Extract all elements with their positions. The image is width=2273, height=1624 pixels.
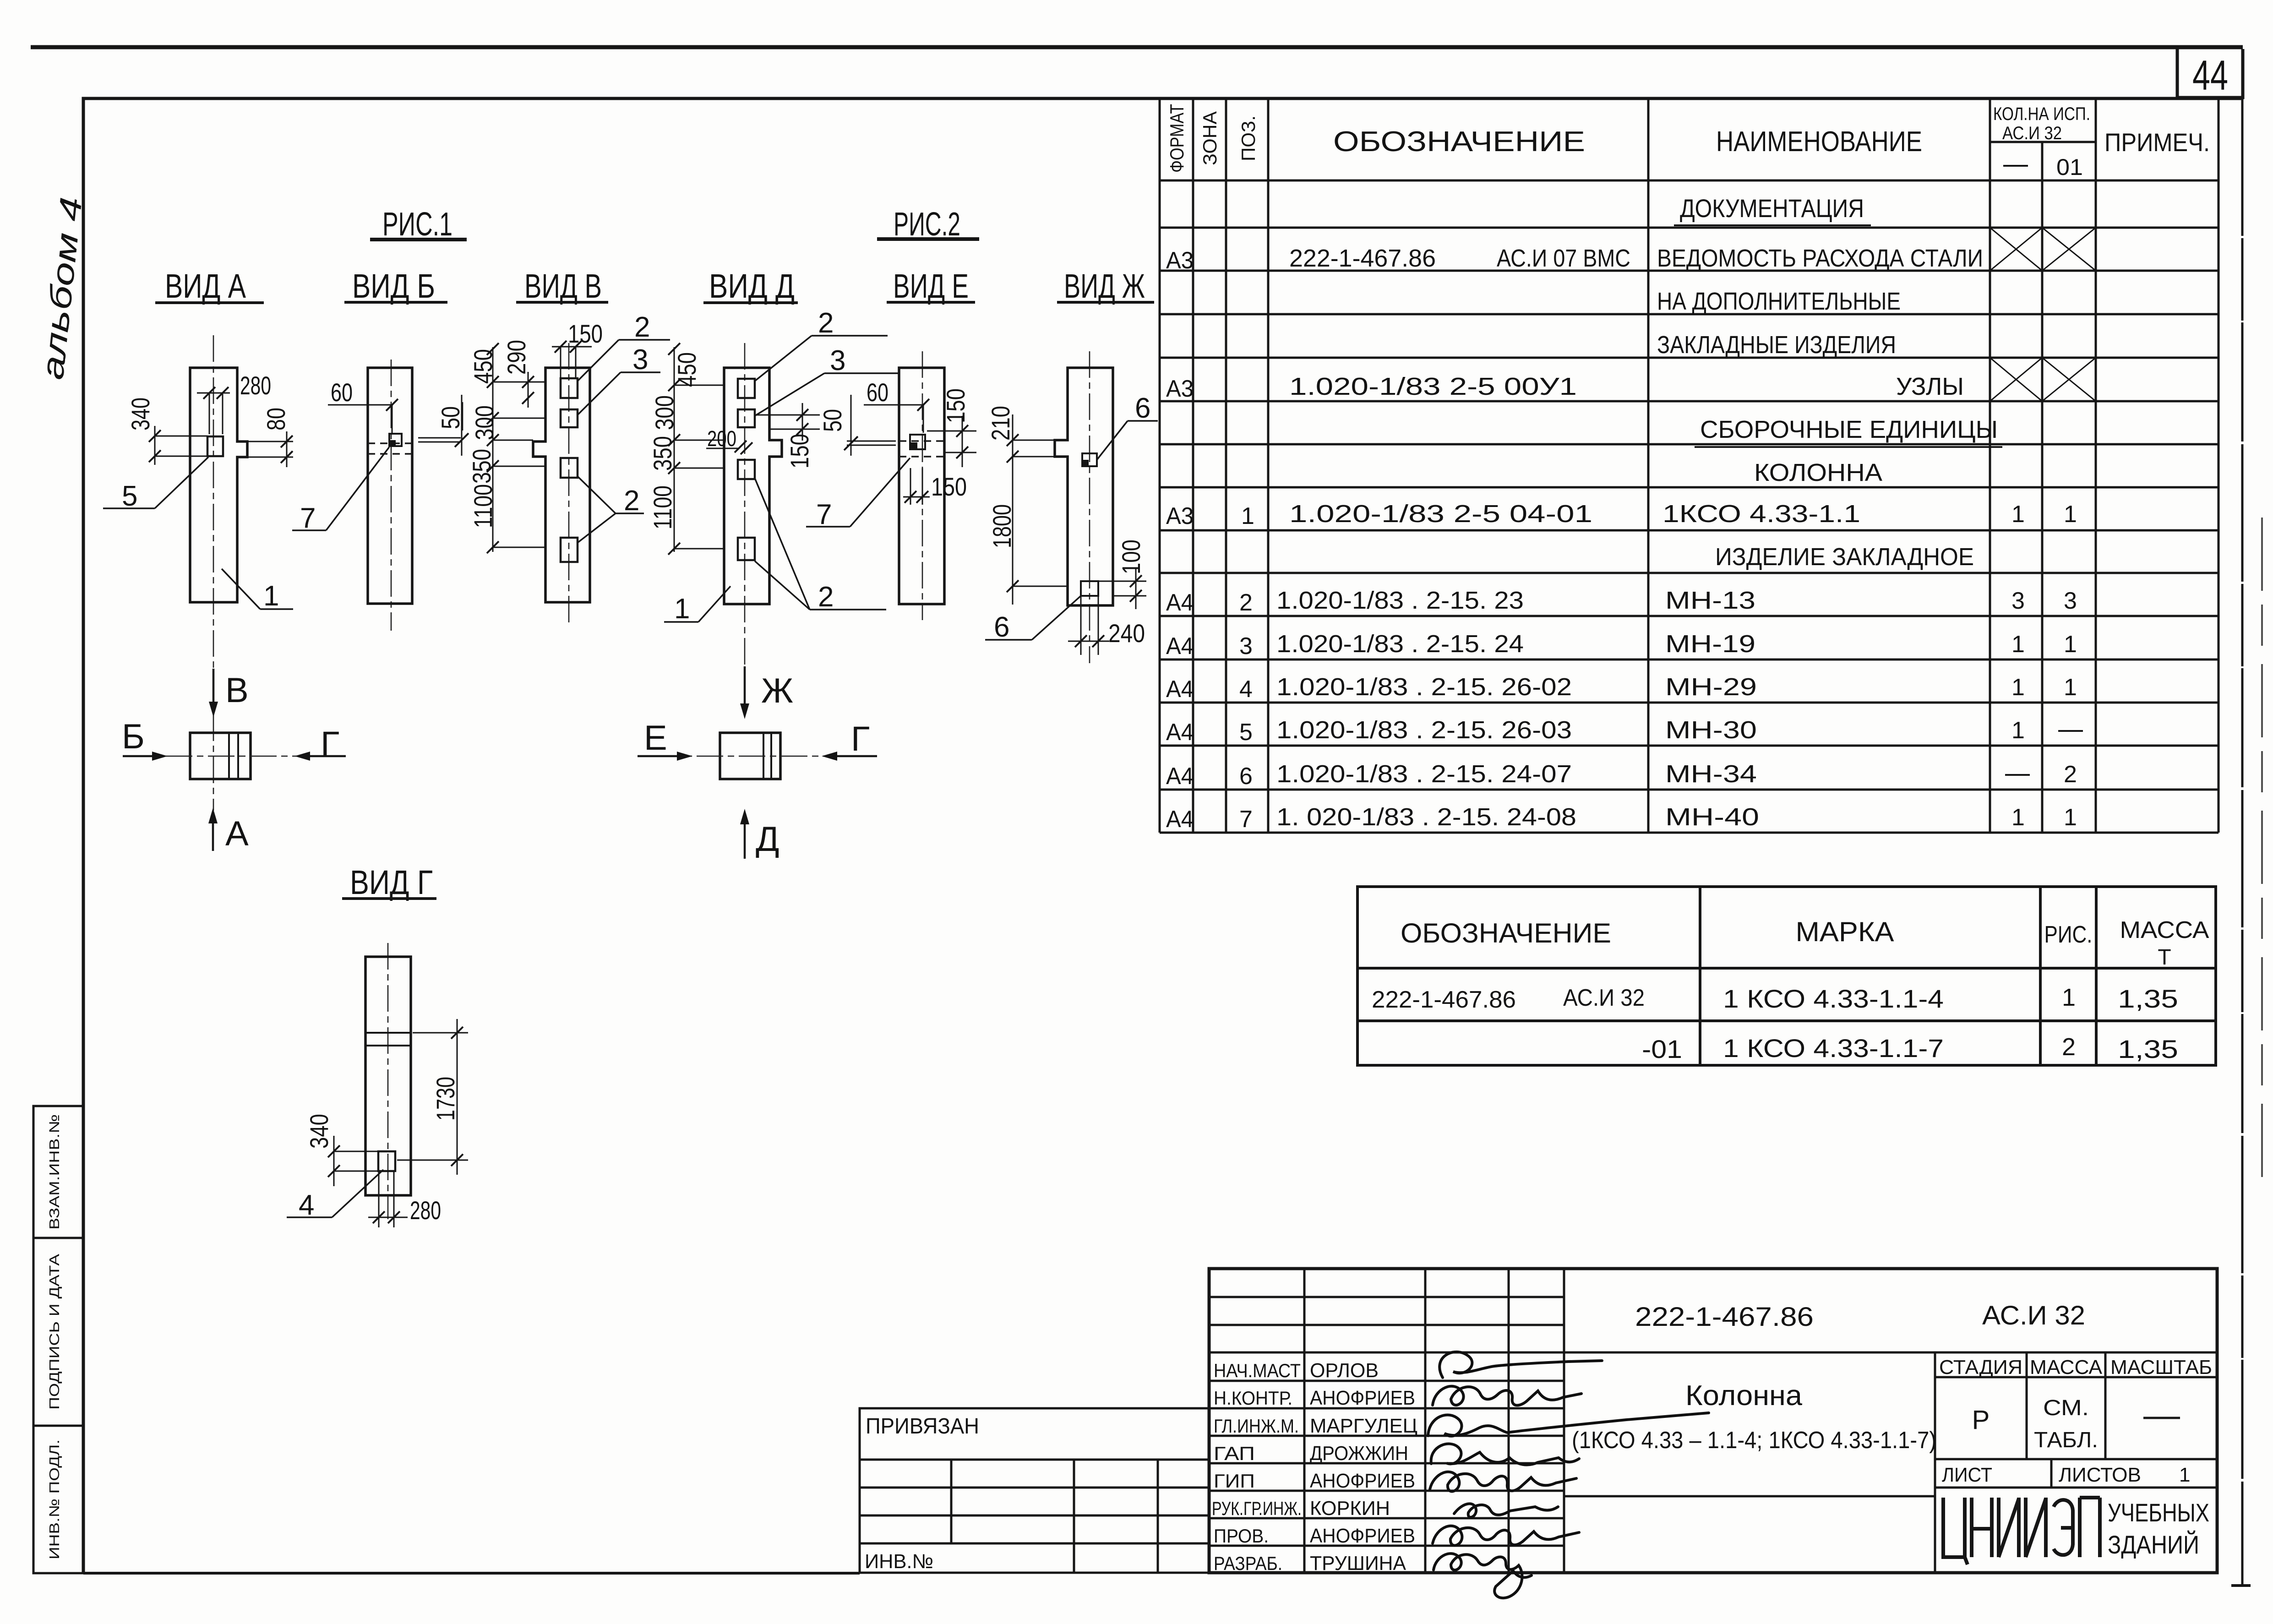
svg-text:5: 5 xyxy=(122,480,137,512)
view E centerline xyxy=(922,351,923,620)
svg-text:НАЧ.МАСТ: НАЧ.МАСТ xyxy=(1214,1360,1301,1381)
view V column outline xyxy=(533,368,590,602)
svg-text:А3: А3 xyxy=(1166,247,1194,274)
svg-text:3: 3 xyxy=(830,345,845,376)
svg-text:АС.И 32: АС.И 32 xyxy=(1563,985,1645,1011)
svg-text:4: 4 xyxy=(1239,676,1253,703)
dimension 150 (view V top) xyxy=(552,319,603,378)
section arrow E (left of plan D) xyxy=(638,719,692,761)
leader item 2 (view V middle pair) xyxy=(578,476,644,543)
logo CNIIEP letters xyxy=(1943,1498,2100,1564)
section arrow B (left of plan A) xyxy=(122,717,168,761)
view D plate 2c xyxy=(738,538,755,560)
section arrow D (below plan D) xyxy=(740,809,779,859)
signature Orlov xyxy=(1439,1352,1602,1378)
svg-text:ГИП: ГИП xyxy=(1214,1470,1255,1492)
svg-text:1: 1 xyxy=(2064,501,2077,528)
svg-text:Г: Г xyxy=(321,725,339,763)
svg-text:ПРИМЕЧ.: ПРИМЕЧ. xyxy=(2104,128,2210,157)
svg-text:ФОРМАТ: ФОРМАТ xyxy=(1166,104,1188,173)
signature Anofriev prov xyxy=(1433,1526,1579,1546)
view G centerline xyxy=(387,943,389,1219)
svg-text:450: 450 xyxy=(672,352,701,387)
svg-text:МН-30: МН-30 xyxy=(1665,716,1757,744)
svg-text:1: 1 xyxy=(2064,804,2077,831)
svg-text:222-1-467.86: 222-1-467.86 xyxy=(1635,1302,1814,1332)
svg-text:1100: 1100 xyxy=(648,485,677,529)
svg-text:1: 1 xyxy=(2011,631,2025,658)
svg-text:ЗДАНИЙ: ЗДАНИЙ xyxy=(2108,1530,2199,1559)
signature Drozhzhin xyxy=(1431,1444,1579,1465)
svg-text:Б: Б xyxy=(122,717,145,756)
dimension 50 (between D and E) xyxy=(818,395,896,456)
view Zh lower plate item 6 xyxy=(1081,581,1098,596)
svg-text:3: 3 xyxy=(632,344,648,376)
mark table grid xyxy=(1357,887,2216,1065)
view D left dimension chain xyxy=(648,343,724,555)
dimension 150 (view E right vertical) xyxy=(927,388,976,467)
svg-text:6: 6 xyxy=(1135,392,1150,424)
svg-text:4: 4 xyxy=(299,1189,314,1221)
title block horizontal lines xyxy=(1209,1297,2217,1546)
spec header dash xyxy=(2003,165,2028,167)
svg-text:А3: А3 xyxy=(1166,376,1194,402)
svg-text:222-1-467.86: 222-1-467.86 xyxy=(1289,245,1436,272)
left margin stamp box 2 xyxy=(33,1238,83,1426)
svg-text:УЧЕБНЫХ: УЧЕБНЫХ xyxy=(2108,1498,2209,1527)
svg-text:Г: Г xyxy=(851,719,870,758)
svg-text:3: 3 xyxy=(2011,588,2025,614)
svg-text:ВЗАМ.ИНВ.№: ВЗАМ.ИНВ.№ xyxy=(46,1114,62,1230)
svg-text:А4: А4 xyxy=(1166,676,1194,703)
frame right edge foot tick xyxy=(2231,1584,2251,1587)
view V plate 3 xyxy=(561,409,578,427)
svg-text:ГЛ.ИНЖ.М.: ГЛ.ИНЖ.М. xyxy=(1214,1415,1299,1437)
svg-text:АНОФРИЕВ: АНОФРИЕВ xyxy=(1310,1525,1415,1547)
svg-text:А4: А4 xyxy=(1166,589,1194,616)
left margin stamp box 1 xyxy=(33,1106,83,1238)
svg-text:ТРУШИНА: ТРУШИНА xyxy=(1310,1552,1406,1575)
svg-text:Т: Т xyxy=(2158,945,2171,970)
dimension 1800 (view Zh) xyxy=(987,457,1068,605)
svg-text:210: 210 xyxy=(986,406,1015,441)
svg-text:ВИД Ж: ВИД Ж xyxy=(1064,267,1145,305)
left margin stamp box 3 xyxy=(33,1426,83,1573)
svg-text:222-1-467.86: 222-1-467.86 xyxy=(1372,986,1516,1013)
dimension 340 (view A) xyxy=(126,398,207,465)
svg-text:50: 50 xyxy=(436,406,465,429)
dimension 60 (view B) xyxy=(328,378,398,433)
dimension 150 (view E lower) xyxy=(903,468,967,505)
svg-text:350: 350 xyxy=(467,449,496,484)
svg-text:1.020-1/83 . 2-15. 23: 1.020-1/83 . 2-15. 23 xyxy=(1276,587,1524,614)
view V plate 2a xyxy=(561,378,578,398)
svg-text:150: 150 xyxy=(941,388,970,423)
svg-text:60: 60 xyxy=(867,378,888,407)
svg-text:340: 340 xyxy=(305,1114,333,1149)
svg-text:АНОФРИЕВ: АНОФРИЕВ xyxy=(1310,1470,1415,1492)
svg-text:240: 240 xyxy=(1108,619,1145,648)
title block vertical lines xyxy=(1304,1269,2105,1573)
svg-text:6: 6 xyxy=(1239,763,1253,790)
svg-text:ЛИСТ: ЛИСТ xyxy=(1942,1464,1992,1486)
svg-text:ДОКУМЕНТАЦИЯ: ДОКУМЕНТАЦИЯ xyxy=(1680,194,1864,223)
signature Korkin xyxy=(1454,1504,1558,1517)
svg-text:1: 1 xyxy=(1241,503,1254,529)
svg-text:КОЛОННА: КОЛОННА xyxy=(1754,459,1882,486)
svg-text:РУК.ГР.ИНЖ.: РУК.ГР.ИНЖ. xyxy=(1212,1498,1302,1519)
section arrow V (below view A) xyxy=(209,669,249,717)
svg-text:1: 1 xyxy=(263,580,279,612)
view A plan inner lines xyxy=(228,733,230,779)
svg-text:2: 2 xyxy=(818,307,834,339)
title block outer frame xyxy=(1209,1269,2217,1573)
svg-text:А3: А3 xyxy=(1166,503,1194,529)
view D plan square xyxy=(720,733,780,779)
svg-text:МН-29: МН-29 xyxy=(1665,673,1757,701)
section arrow Zh (below view D) xyxy=(740,666,793,719)
view A plan horizontal centerline xyxy=(124,756,346,757)
view E hidden lines xyxy=(899,440,944,441)
dimension 50 (between B and V) xyxy=(418,395,469,456)
svg-text:1.020-1/83 2-5 04-01: 1.020-1/83 2-5 04-01 xyxy=(1289,500,1592,528)
leader item 7 (view B) xyxy=(292,447,389,534)
svg-text:350: 350 xyxy=(648,436,677,471)
svg-text:200: 200 xyxy=(707,427,736,451)
view A plan square xyxy=(190,733,251,779)
svg-text:А4: А4 xyxy=(1166,719,1194,746)
svg-text:МН-34: МН-34 xyxy=(1665,760,1757,788)
view B embedded plate item 7 xyxy=(389,434,402,446)
leader item 2 (view D bottom pair) xyxy=(755,478,886,613)
view G column outline xyxy=(365,957,411,1195)
svg-text:7: 7 xyxy=(1239,806,1253,833)
view E column outline xyxy=(899,368,944,604)
leader item 4 (view G) xyxy=(287,1170,383,1221)
svg-text:150: 150 xyxy=(785,434,814,469)
svg-text:ВИД А: ВИД А xyxy=(165,267,246,305)
svg-text:РИС.1: РИС.1 xyxy=(382,206,452,243)
svg-text:80: 80 xyxy=(262,408,290,431)
dimension 60 (view E) xyxy=(864,378,929,433)
view B column outline xyxy=(368,368,412,604)
svg-text:50: 50 xyxy=(818,409,847,432)
svg-text:1: 1 xyxy=(2064,674,2077,701)
svg-text:УЗЛЫ: УЗЛЫ xyxy=(1896,373,1964,400)
view D column outline xyxy=(724,368,782,604)
svg-text:300: 300 xyxy=(650,395,679,430)
svg-text:1: 1 xyxy=(2011,717,2025,744)
svg-text:2: 2 xyxy=(818,581,834,613)
view E embedded plate item 7 xyxy=(910,435,925,449)
dimension 80 (view A) xyxy=(247,408,293,467)
svg-text:1800: 1800 xyxy=(987,504,1016,548)
view A column outline xyxy=(190,368,247,602)
svg-text:1: 1 xyxy=(2179,1464,2190,1486)
page number box xyxy=(2177,49,2243,98)
svg-text:ПРОВ.: ПРОВ. xyxy=(1214,1525,1269,1547)
svg-text:А4: А4 xyxy=(1166,633,1194,659)
svg-text:1.020-1/83 . 2-15. 26-03: 1.020-1/83 . 2-15. 26-03 xyxy=(1276,716,1572,744)
view V plate 2b xyxy=(561,458,578,478)
svg-text:1: 1 xyxy=(674,593,690,625)
svg-text:НА ДОПОЛНИТЕЛЬНЫЕ: НА ДОПОЛНИТЕЛЬНЫЕ xyxy=(1657,288,1901,315)
svg-text:1: 1 xyxy=(2011,804,2025,831)
leader item 5 (view A) xyxy=(103,457,208,512)
svg-text:1: 1 xyxy=(2011,674,2025,701)
dimension 150 (view D right) xyxy=(755,403,820,469)
svg-text:1: 1 xyxy=(2064,631,2077,658)
view Zh column outline xyxy=(1055,368,1113,605)
svg-text:Д: Д xyxy=(756,820,779,859)
svg-text:ИНВ.№: ИНВ.№ xyxy=(865,1550,933,1573)
title block masshtab value xyxy=(2143,1417,2180,1419)
svg-text:СТАДИЯ: СТАДИЯ xyxy=(1939,1356,2022,1379)
section arrow G (right of plan D) xyxy=(822,719,877,761)
svg-text:1730: 1730 xyxy=(431,1077,460,1121)
svg-text:ВИД Д: ВИД Д xyxy=(709,267,795,305)
view Zh centerline xyxy=(1089,351,1090,663)
view D plan inner lines xyxy=(763,733,764,779)
svg-text:ДРОЖЖИН: ДРОЖЖИН xyxy=(1310,1442,1408,1465)
svg-text:7: 7 xyxy=(816,499,832,530)
view D plan horizontal centerline xyxy=(654,756,877,757)
svg-text:1: 1 xyxy=(2062,984,2076,1011)
svg-text:7: 7 xyxy=(300,502,316,534)
dimension 280 (view G bottom) xyxy=(368,1171,441,1227)
dimension 200 (view D) xyxy=(706,427,752,454)
svg-text:РИС.: РИС. xyxy=(2044,921,2093,948)
signature Margulec xyxy=(1428,1413,1709,1436)
svg-text:АНОФРИЕВ: АНОФРИЕВ xyxy=(1310,1387,1415,1409)
view B centerline xyxy=(391,360,392,631)
svg-text:1КСО 4.33-1.1: 1КСО 4.33-1.1 xyxy=(1663,500,1860,528)
svg-text:Н.КОНТР.: Н.КОНТР. xyxy=(1214,1387,1292,1409)
svg-text:1.020-1/83 . 2-15. 24: 1.020-1/83 . 2-15. 24 xyxy=(1276,630,1524,658)
dimension 210 (view Zh) xyxy=(986,406,1055,467)
svg-text:ОБОЗНАЧЕНИЕ: ОБОЗНАЧЕНИЕ xyxy=(1401,918,1611,948)
svg-text:1. 020-1/83 . 2-15. 24-08: 1. 020-1/83 . 2-15. 24-08 xyxy=(1276,803,1576,831)
leader item 6 (view Zh lower) xyxy=(985,596,1081,643)
svg-text:АС.И 07 ВМС: АС.И 07 ВМС xyxy=(1497,245,1630,272)
svg-text:290: 290 xyxy=(502,340,531,375)
privyazan box xyxy=(860,1408,1209,1573)
svg-text:44: 44 xyxy=(2192,52,2228,99)
svg-text:Р: Р xyxy=(1972,1405,1990,1435)
dimension 1730 (view G) xyxy=(397,1019,468,1175)
view D plate 2a xyxy=(738,379,755,398)
svg-text:1.020-1/83 . 2-15. 26-02: 1.020-1/83 . 2-15. 26-02 xyxy=(1276,673,1572,701)
svg-text:1.020-1/83 2-5 00У1: 1.020-1/83 2-5 00У1 xyxy=(1289,373,1577,400)
svg-text:01: 01 xyxy=(2056,154,2083,180)
svg-text:Ж: Ж xyxy=(761,671,793,710)
svg-text:2: 2 xyxy=(634,311,650,343)
svg-text:450: 450 xyxy=(469,349,497,384)
svg-text:280: 280 xyxy=(240,371,271,400)
svg-text:1: 1 xyxy=(2011,501,2025,528)
svg-text:ЛИСТОВ: ЛИСТОВ xyxy=(2059,1464,2141,1486)
leader item 6 (view Zh upper) xyxy=(1097,392,1158,460)
svg-text:3: 3 xyxy=(2064,588,2077,614)
svg-text:МН-19: МН-19 xyxy=(1665,630,1755,658)
frame bottom line xyxy=(83,1572,860,1575)
svg-text:КОЛ.НА ИСП.: КОЛ.НА ИСП. xyxy=(1993,104,2090,124)
svg-text:КОРКИН: КОРКИН xyxy=(1310,1497,1390,1520)
svg-text:МАСШТАБ: МАСШТАБ xyxy=(2110,1356,2212,1379)
svg-text:300: 300 xyxy=(470,405,499,440)
svg-text:АС.И 32: АС.И 32 xyxy=(1982,1301,2085,1330)
svg-text:В: В xyxy=(225,671,249,710)
svg-text:ВИД Б: ВИД Б xyxy=(352,267,435,305)
svg-text:А: А xyxy=(225,814,249,853)
svg-text:МАССА: МАССА xyxy=(2120,917,2209,943)
svg-text:(1КСО 4.33 – 1.1-4; 1КСО 4.33-: (1КСО 4.33 – 1.1-4; 1КСО 4.33-1.1-7) xyxy=(1572,1427,1936,1454)
svg-text:150: 150 xyxy=(568,319,603,348)
signature Anofriev GIP xyxy=(1430,1472,1576,1492)
dimension 280 (view A) xyxy=(197,371,271,434)
svg-text:ОБОЗНАЧЕНИЕ: ОБОЗНАЧЕНИЕ xyxy=(1333,126,1585,158)
svg-text:3: 3 xyxy=(1239,633,1253,659)
signature Trushina xyxy=(1434,1553,1532,1598)
svg-text:280: 280 xyxy=(410,1196,441,1225)
svg-text:340: 340 xyxy=(126,398,155,431)
svg-text:МН-13: МН-13 xyxy=(1665,587,1755,614)
top rule line xyxy=(31,45,2243,49)
svg-text:альбом 4: альбом 4 xyxy=(35,196,88,381)
svg-text:СБОРОЧНЫЕ ЕДИНИЦЫ: СБОРОЧНЫЕ ЕДИНИЦЫ xyxy=(1700,416,1998,443)
view V plate 2c xyxy=(561,538,578,562)
view V left dimension chain xyxy=(467,343,545,553)
svg-text:Е: Е xyxy=(644,719,667,758)
svg-text:ПОДПИСЬ И ДАТА: ПОДПИСЬ И ДАТА xyxy=(46,1254,62,1410)
svg-text:ВИД В: ВИД В xyxy=(524,267,602,305)
svg-text:60: 60 xyxy=(331,378,353,407)
leader item 1 (view D) xyxy=(664,586,730,625)
svg-text:ПОЗ.: ПОЗ. xyxy=(1237,115,1259,161)
svg-text:ЗАКЛАДНЫЕ ИЗДЕЛИЯ: ЗАКЛАДНЫЕ ИЗДЕЛИЯ xyxy=(1657,331,1896,359)
leader item 7 (view E) xyxy=(806,458,910,530)
svg-text:МАРКА: МАРКА xyxy=(1796,916,1894,947)
svg-text:Колонна: Колонна xyxy=(1685,1380,1803,1411)
svg-text:ВЕДОМОСТЬ РАСХОДА СТАЛИ: ВЕДОМОСТЬ РАСХОДА СТАЛИ xyxy=(1657,245,1983,272)
svg-text:1100: 1100 xyxy=(469,484,497,528)
view V centerline xyxy=(568,343,570,627)
view A embedded plate item 5 xyxy=(207,436,223,456)
svg-text:НАИМЕНОВАНИЕ: НАИМЕНОВАНИЕ xyxy=(1716,126,1922,158)
svg-text:А4: А4 xyxy=(1166,763,1194,790)
svg-text:ВИД Е: ВИД Е xyxy=(893,267,969,305)
svg-text:1.020-1/83 . 2-15. 24-07: 1.020-1/83 . 2-15. 24-07 xyxy=(1276,760,1572,788)
svg-text:2: 2 xyxy=(624,485,639,517)
svg-text:СМ.: СМ. xyxy=(2043,1396,2089,1420)
frame right edge xyxy=(2241,98,2244,1586)
svg-text:МАРГУЛЕЦ: МАРГУЛЕЦ xyxy=(1310,1415,1417,1437)
svg-text:МН-40: МН-40 xyxy=(1665,803,1759,831)
svg-text:ПРИВЯЗАН: ПРИВЯЗАН xyxy=(866,1414,979,1439)
title block names xyxy=(1310,1359,1417,1575)
svg-text:ИЗДЕЛИЕ ЗАКЛАДНОЕ: ИЗДЕЛИЕ ЗАКЛАДНОЕ xyxy=(1715,543,1974,571)
view G joint lines xyxy=(365,1032,411,1034)
svg-text:100: 100 xyxy=(1117,540,1145,574)
svg-text:АС.И 32: АС.И 32 xyxy=(2002,123,2062,143)
svg-text:МАССА: МАССА xyxy=(2030,1356,2103,1379)
svg-text:ВИД Г: ВИД Г xyxy=(350,863,433,901)
svg-text:5: 5 xyxy=(1239,719,1253,746)
svg-text:-01: -01 xyxy=(1642,1035,1682,1063)
leader item 2 (view D top) xyxy=(755,307,888,381)
leader item 3 (view D) xyxy=(755,345,899,416)
dimension 290 (view V) xyxy=(502,340,534,408)
leader item 2 (view V top) xyxy=(578,311,670,381)
dimension 240 (view Zh bottom) xyxy=(1068,596,1145,655)
view Zh upper plate item 6 xyxy=(1082,453,1097,466)
svg-text:150: 150 xyxy=(931,472,967,501)
svg-text:1 КСО 4.33-1.1-4: 1 КСО 4.33-1.1-4 xyxy=(1723,984,1944,1013)
section arrow A (below plan A) xyxy=(208,808,249,853)
svg-text:ИНВ.№ ПОДЛ.: ИНВ.№ ПОДЛ. xyxy=(46,1439,62,1559)
view G embedded plate item 4 xyxy=(378,1151,395,1171)
dimension 100 (view Zh right) xyxy=(1098,540,1146,609)
svg-text:А4: А4 xyxy=(1166,806,1194,833)
svg-text:ТАБЛ.: ТАБЛ. xyxy=(2034,1428,2098,1452)
dimension 340 (view G) xyxy=(305,1114,378,1186)
leader item 1 (view A) xyxy=(222,569,293,612)
leader item 3 (view V) xyxy=(578,344,660,415)
spec table grid xyxy=(1160,98,2218,833)
view A centerline xyxy=(213,335,214,673)
section arrow G (right of plan A) xyxy=(294,725,346,763)
svg-text:6: 6 xyxy=(994,611,1009,643)
view B hidden lines xyxy=(368,442,412,444)
svg-text:ГАП: ГАП xyxy=(1214,1443,1255,1464)
svg-text:2: 2 xyxy=(2064,761,2077,788)
svg-text:1,35: 1,35 xyxy=(2118,984,2178,1013)
svg-text:РАЗРАБ.: РАЗРАБ. xyxy=(1214,1553,1282,1574)
view D centerline xyxy=(744,343,746,665)
signature Anofriev 1 xyxy=(1433,1386,1581,1406)
view D plate 3 xyxy=(738,409,755,427)
svg-text:2: 2 xyxy=(1239,589,1253,616)
svg-text:1,35: 1,35 xyxy=(2118,1035,2178,1063)
svg-text:ЗОНА: ЗОНА xyxy=(1199,111,1221,165)
svg-text:1 КСО 4.33-1.1-7: 1 КСО 4.33-1.1-7 xyxy=(1723,1034,1944,1063)
title block job titles xyxy=(1212,1360,1302,1574)
scan artifact line right xyxy=(2261,518,2263,1191)
svg-text:ОРЛОВ: ОРЛОВ xyxy=(1310,1359,1379,1382)
view D plate 2b xyxy=(738,460,755,479)
svg-text:2: 2 xyxy=(2062,1033,2076,1061)
